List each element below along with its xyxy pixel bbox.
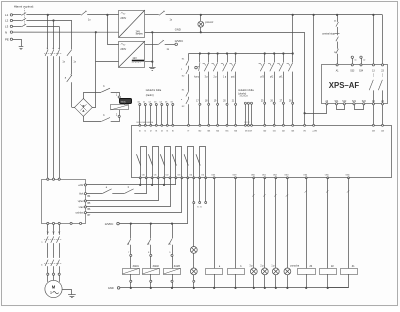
wire lamp2 down	[193, 275, 195, 281]
sensor switch konc	[195, 54, 200, 104]
pin A1 top	[336, 64, 340, 73]
node PSU2-L junction	[106, 14, 108, 16]
svg-text:12V: 12V	[132, 57, 137, 60]
node 12VDC junction ZAM2	[150, 223, 152, 225]
wire ZAM3 bottom	[172, 274, 174, 280]
wire cs to A1	[337, 54, 339, 65]
wire 23 to PLC	[248, 104, 250, 125]
node N terminal	[5, 30, 13, 34]
sensor switch front 25	[259, 54, 265, 104]
wire phase L2 drop	[53, 21, 55, 50]
safety relay U3 box	[322, 65, 388, 104]
wire L2 line	[26, 20, 72, 22]
node connector 28	[292, 102, 294, 104]
PLC bottom terminals left	[139, 177, 206, 179]
wire ZAM3 to coil	[172, 257, 174, 269]
lock solenoid ZAM3	[164, 268, 181, 274]
node connector 21	[235, 103, 237, 105]
wire Z1 gnd	[328, 274, 349, 288]
main switch pole 3	[21, 24, 26, 27]
svg-text:S12: S12	[342, 101, 347, 103]
contact Z2 aux	[148, 239, 151, 244]
sensor switch front 26	[268, 54, 274, 104]
wire gnd stub	[152, 62, 154, 67]
main switch pole 2	[21, 18, 26, 21]
node lamp connector	[193, 202, 195, 204]
node 12VDC junction ZAM1	[130, 223, 132, 225]
wire sensor feed upper	[292, 15, 294, 54]
wire ZAM1 upper	[130, 224, 132, 239]
node L2 terminal	[5, 19, 13, 23]
svg-text:S34: S34	[359, 71, 364, 73]
node rail junction 19	[217, 52, 219, 54]
wire B4 segment1	[87, 193, 103, 195]
node psu2 minus junction	[151, 61, 153, 63]
wire Z1 feed	[348, 178, 350, 268]
drive top terminals	[47, 178, 61, 180]
wire 25 to PLC	[264, 104, 266, 125]
wire lamp porucha feed	[287, 178, 289, 268]
wire PSU2 minus out	[145, 61, 152, 63]
node connector 27	[282, 102, 284, 104]
wire phase L1 drop	[47, 15, 49, 49]
wire ZAM1 bottom	[130, 274, 132, 280]
bridge rectifier D1	[75, 99, 93, 117]
wire 14 to PLC	[373, 105, 375, 125]
node gnd junction lamp x275.8	[275, 287, 277, 289]
rear sensor stubs 10-16	[137, 101, 173, 125]
node ZAM2 bottom connector	[150, 280, 152, 282]
svg-text:vpřed: vpřed	[78, 201, 84, 203]
wire to module pin1	[111, 93, 120, 96]
reset stub s2	[360, 56, 366, 64]
relay contacts K1/K2 chain	[186, 54, 189, 126]
wire B4 segment2	[112, 193, 125, 195]
wire 19 to PLC	[217, 105, 219, 125]
solenoid coil Z2	[320, 269, 337, 275]
wire L2 drop to switch	[71, 21, 73, 50]
indicator lamp porucha	[284, 268, 291, 275]
wire 12V stub	[165, 44, 175, 46]
ground PE	[19, 47, 24, 50]
pin 24 bottom	[381, 101, 384, 105]
indicator lamp provoz	[198, 21, 204, 27]
node A2 gnd junction	[304, 112, 306, 114]
node GND rail connector	[117, 287, 120, 290]
wire to contact a	[71, 56, 73, 74]
node +24V com junction x152.1	[151, 184, 153, 186]
label indukcni cidla zadni	[146, 88, 162, 97]
node 24V provoz junction	[200, 14, 202, 16]
power supply U1 output label	[136, 30, 143, 34]
drive control terminals	[76, 184, 87, 215]
wire module to coil	[124, 104, 126, 105]
tick on wire Z2	[326, 190, 329, 192]
node connector 20	[226, 103, 228, 105]
wire coil b to gnd	[235, 274, 237, 288]
wire 12VDC rail	[119, 223, 188, 225]
pin 13 top	[372, 64, 375, 73]
wire L1 to switch	[13, 14, 22, 16]
wire 28 to PLC	[292, 104, 294, 125]
node 12VDC connector rail	[117, 222, 120, 225]
power supply U2 AC symbol	[121, 44, 125, 46]
pin S33 top	[350, 64, 355, 73]
wire ZAM1 mid	[130, 245, 132, 255]
svg-text:PE: PE	[5, 38, 9, 42]
node gnd junction lamp x287.4	[286, 287, 288, 289]
node 24V plc junction	[313, 14, 315, 16]
wire gnd tie vertical	[152, 32, 154, 61]
svg-text:L2: L2	[5, 19, 9, 23]
svg-text:L3: L3	[5, 25, 9, 29]
wire com up x140.2	[140, 178, 142, 185]
node gnd junction ZAM3	[171, 287, 173, 289]
node 24V central-stop junction	[336, 14, 338, 16]
wires drive to contactor a	[47, 225, 60, 235]
wire L1 line	[26, 14, 80, 16]
sensor switch 1 p	[221, 54, 228, 104]
wire ZAM3 mid	[172, 245, 174, 255]
switch F1 on L1	[81, 11, 87, 16]
reset stub s1	[351, 56, 357, 64]
wire 24 to PLC	[251, 104, 253, 125]
node connector 17	[199, 103, 201, 105]
node GND psu2 junction	[151, 31, 153, 33]
svg-text:GND: GND	[108, 286, 114, 290]
contact a drive	[103, 189, 112, 193]
wire motor to ground	[62, 290, 71, 295]
pin S21 bottom	[352, 101, 357, 105]
wires contactor a to b	[48, 243, 60, 258]
wire A2 to GND	[305, 105, 327, 114]
power supply U1 diagonal	[119, 10, 145, 38]
lock solenoid ZAM1	[122, 268, 139, 274]
node rail junction 26	[273, 52, 275, 54]
wire ZAM3 upper	[172, 224, 174, 239]
svg-text:central stop: central stop	[322, 33, 336, 36]
node connector 24	[251, 102, 253, 104]
svg-text:ZAM2: ZAM2	[153, 265, 160, 268]
wire L3 to switch	[13, 26, 22, 28]
indicator lamp 2 p	[261, 268, 268, 275]
pin S12 bottom	[342, 101, 347, 105]
wire O45 to coil a	[214, 178, 216, 268]
sensor switch 3 p	[203, 54, 209, 104]
PLC box	[132, 126, 392, 178]
wire 17 to PLC	[199, 105, 201, 125]
wire O5no down	[193, 178, 195, 202]
node gnd junction ZAM1	[130, 287, 132, 289]
node connector 22	[244, 102, 246, 104]
node +24V com junction x140.2	[139, 184, 141, 186]
power supply U2 12V box	[119, 42, 145, 68]
wire bridge minus	[84, 116, 102, 121]
node rail junction 20	[226, 52, 228, 54]
wire PSU2 N in	[96, 32, 119, 61]
wire cs 1	[337, 27, 339, 33]
wire ZAM2 bottom	[150, 274, 152, 280]
node rail junction 21	[235, 52, 237, 54]
node lamp bottom connector	[193, 280, 195, 282]
node 12VDC junction ZAM3	[171, 223, 173, 225]
tick on wire Z1	[347, 190, 350, 192]
wire lamp bottom	[200, 27, 202, 32]
pin S11 bottom	[335, 101, 340, 105]
node sensor rail feed	[292, 52, 294, 54]
svg-text:303132: 303132	[244, 122, 249, 124]
node GND provoz junction	[200, 31, 202, 33]
wire B6 to PLC	[87, 178, 171, 207]
node gnd junction coil a	[213, 287, 215, 289]
node connector 23	[247, 102, 249, 104]
wire lamp 2 p feed	[264, 178, 266, 268]
wire drive +24V	[87, 184, 176, 186]
wire PSU2 12V out	[145, 44, 158, 46]
svg-text:ZAM3: ZAM3	[174, 265, 181, 268]
switch F4 label 1x	[62, 60, 76, 63]
wire com up x164.0	[164, 178, 166, 185]
wire O7 stub	[205, 178, 207, 204]
wire central stop top	[337, 15, 339, 22]
svg-text:indukční čidla: indukční čidla	[146, 88, 162, 92]
protection module F5	[120, 99, 132, 104]
wire +24V drop to PLC	[313, 15, 315, 125]
wire lamp to gnd	[193, 282, 195, 288]
svg-text:N: N	[5, 30, 7, 34]
svg-text:rychlost: rychlost	[76, 212, 84, 215]
svg-text:24V: 24V	[136, 30, 141, 33]
node 12VDC connector	[175, 43, 178, 46]
drive bottom terminals	[47, 222, 82, 224]
node PE terminal	[5, 38, 13, 42]
wire coil a to gnd	[214, 274, 216, 288]
svg-text:XPS–AF: XPS–AF	[329, 81, 360, 90]
pin S22 bottom	[362, 101, 367, 105]
wire ZAM2 mid	[150, 245, 152, 255]
svg-text:indukční čidla: indukční čidla	[238, 88, 254, 92]
svg-text:S21: S21	[352, 101, 357, 103]
circuit breaker Q1 (3-pole)	[44, 48, 61, 56]
indicator lamp zav2	[190, 268, 197, 275]
wire Z2 feed	[327, 178, 329, 268]
pin S34 top	[359, 64, 364, 73]
wire 24 to PLC	[382, 105, 384, 125]
power supply U1 AC symbol	[121, 13, 125, 15]
svg-text:provoz: provoz	[205, 20, 214, 24]
svg-text:230V: 230V	[120, 48, 126, 51]
node N-drop junction	[95, 31, 97, 33]
node module pin2	[118, 115, 120, 117]
node L1-drop junction	[47, 14, 49, 16]
svg-text:L1: L1	[5, 13, 9, 17]
solenoid coil Z3	[298, 269, 316, 275]
wire lamp 1 p gnd	[275, 275, 277, 288]
wire sensor rail	[189, 53, 293, 55]
wire ZAM2 to gnd	[150, 282, 152, 288]
ground motor	[68, 295, 76, 298]
svg-text:+24V: +24V	[78, 185, 84, 187]
wires contactor b to motor terminals	[48, 266, 60, 273]
jumper S11-S12	[337, 105, 345, 110]
node ZAM1 bottom connector	[130, 280, 132, 282]
sensor switch 2 p	[212, 54, 218, 104]
wire B7 to PLC	[87, 178, 182, 213]
wire bridge plus	[84, 93, 102, 99]
wire 24V rail	[166, 14, 383, 16]
node ZAM3 bottom connector	[171, 280, 173, 282]
node module pin1	[118, 96, 120, 98]
node +24V com junction x164.0	[163, 184, 165, 186]
wire B4 to PLC	[134, 178, 146, 194]
node gnd junction lamps	[193, 287, 195, 289]
power supply U2 output label	[132, 57, 144, 63]
wire phases breaker to drive	[48, 56, 60, 178]
svg-text:Hlavní vypínač: Hlavní vypínač	[14, 4, 34, 8]
xps contact 23-24	[378, 74, 382, 104]
wire to lamp1	[193, 204, 195, 247]
indicator lamp 1 p	[272, 268, 279, 275]
wire com up x152.1	[152, 178, 154, 185]
power supply U2 diagonal	[119, 41, 145, 67]
wire lamp 3 p feed	[253, 178, 255, 268]
wire 26 to PLC	[274, 104, 276, 125]
xps contact 13-14	[369, 74, 373, 104]
emergency stop button S1	[335, 34, 340, 42]
contact a (lock enable)	[67, 75, 72, 82]
wire L1 to PSU1	[87, 14, 118, 16]
wire 21 to PLC	[235, 105, 237, 125]
wire PE to ground	[13, 40, 22, 47]
main switch Q0 linkage	[24, 8, 26, 25]
svg-text:ZAM1: ZAM1	[133, 265, 140, 268]
tick on wire x264.8	[263, 194, 266, 196]
node ZAM3 connector	[171, 254, 173, 256]
wire 13 up	[373, 15, 375, 64]
contact 2k lower	[336, 49, 339, 54]
frequency drive box	[42, 180, 86, 224]
svg-text:(zadní): (zadní)	[146, 93, 154, 97]
wire lamp porucha gnd	[287, 275, 289, 288]
main switch pole 1	[21, 13, 26, 16]
pin A2 bottom	[325, 100, 329, 105]
svg-text:vzad: vzad	[79, 207, 85, 209]
svg-text:I07.08.09: I07.08.09	[245, 131, 252, 133]
svg-text:porucha: porucha	[290, 264, 299, 267]
wire coil to pin2	[119, 110, 121, 115]
label indukcni cidla dvere	[238, 88, 254, 96]
node gnd junction ZAM2	[150, 287, 152, 289]
tick on wire x253.8	[252, 194, 255, 196]
node rail junction 18	[208, 52, 210, 54]
wire phase L3 drop	[59, 26, 61, 49]
wire bridge AC1	[72, 107, 75, 109]
contactor coil a	[206, 269, 223, 275]
svg-text:GND: GND	[175, 28, 181, 32]
wire 22 to PLC	[245, 104, 247, 125]
switch F4 on L2 drop	[67, 49, 72, 55]
svg-text:S1 S2: S1 S2	[197, 207, 202, 209]
wire ZAM2 to coil	[150, 257, 152, 269]
wires to motor	[48, 275, 60, 282]
power supply U1 24V box	[119, 11, 145, 38]
wire pin2 down	[119, 118, 121, 122]
ground power common	[149, 68, 156, 71]
lock solenoid ZAM2	[142, 268, 159, 274]
switch F3 on 12V	[158, 40, 164, 45]
wire ZAM2 upper	[150, 224, 152, 239]
PLC top pin labels	[139, 131, 385, 133]
wire O49 to coil b	[235, 178, 237, 268]
wire Z3 feed	[306, 178, 308, 268]
node 24V sensor-feed junction	[292, 14, 294, 16]
PLC relay contacts O0-O5	[137, 147, 206, 178]
wire L2 to switch	[13, 20, 22, 22]
node connector 25	[264, 102, 266, 104]
node gnd junction Z3	[305, 287, 307, 289]
lock coil (zamek)	[111, 105, 129, 110]
sensor switch front 28	[287, 54, 293, 104]
wire lamp1 to lamp2	[193, 253, 195, 268]
wire 27 to PLC	[283, 104, 285, 125]
node connector 18	[208, 103, 210, 105]
svg-text:S22: S22	[362, 101, 367, 103]
jumper S21-S22	[355, 105, 364, 110]
wire contact a to bridge	[71, 82, 73, 107]
contact 2k upper	[336, 22, 339, 27]
wire lamp top	[200, 15, 202, 21]
PLC top terminals	[139, 124, 384, 126]
node L3 terminal	[5, 25, 13, 29]
node gnd junction coil b	[234, 287, 236, 289]
wire N line	[13, 31, 119, 33]
solenoid coil Z1	[341, 269, 358, 275]
K chain labels	[181, 59, 185, 108]
sensor switch po&#269;	[230, 54, 236, 104]
svg-text:12VDC: 12VDC	[105, 222, 114, 226]
sensor switch front 27	[277, 54, 283, 104]
wire contact b lower to pin2	[111, 121, 120, 123]
wire PSU2 L in	[108, 15, 119, 45]
wire N drop to bridge AC2	[92, 62, 95, 108]
node connector 26	[273, 102, 275, 104]
node L1 terminal	[5, 13, 13, 17]
node L2-drop junction	[52, 19, 54, 21]
node gnd junction Z2	[327, 287, 329, 289]
svg-text:M: M	[52, 284, 56, 289]
wire Z2 gnd	[327, 274, 329, 288]
contact b drive	[125, 189, 134, 193]
tick on wire x275.8	[274, 194, 277, 196]
node gnd junction lamp x253.8	[253, 287, 255, 289]
wire cs 2	[337, 42, 339, 49]
motor M1	[45, 280, 62, 297]
wire lamp 1 p feed	[275, 178, 277, 268]
contact b lower	[101, 118, 110, 122]
contactor coil b	[228, 269, 245, 275]
tick on wire Z3	[305, 190, 308, 192]
wire 23 up	[382, 15, 384, 64]
indicator lamp zav1	[190, 247, 197, 254]
contact Z3 aux	[169, 239, 172, 244]
wire Z3 gnd	[306, 274, 308, 288]
wire ZAM3 to gnd	[172, 282, 174, 288]
svg-text:12VDC: 12VDC	[175, 39, 184, 43]
wire pin1 to module	[119, 97, 121, 100]
wire lamp 3 p gnd	[253, 275, 255, 288]
svg-text:3: 3	[50, 291, 52, 295]
wire PSU1 GND out	[145, 32, 305, 34]
